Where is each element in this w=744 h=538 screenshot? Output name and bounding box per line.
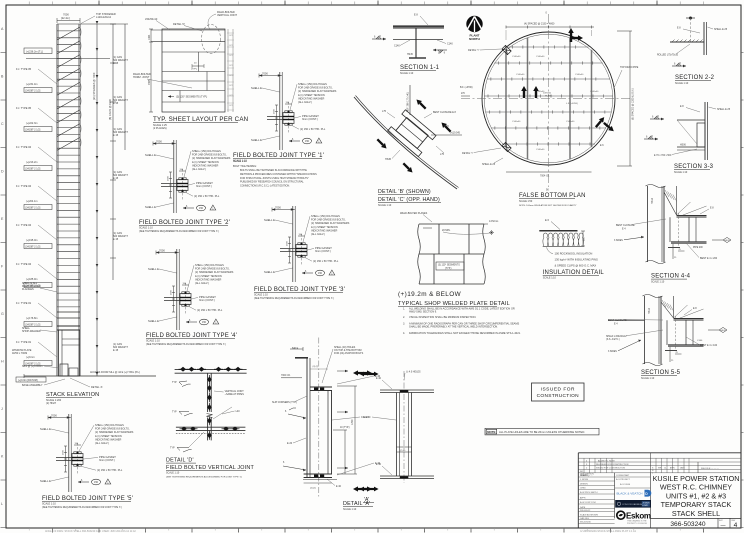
svg-text:DETAIL 'B' (SHOWN): DETAIL 'B' (SHOWN) [378,189,431,195]
svg-text:FIELD BOLTED JOINT TYPE '5': FIELD BOLTED JOINT TYPE '5' [42,496,133,502]
svg-text:STACK SHELL: STACK SHELL [672,509,720,518]
svg-text:(2) 150 x 50 THK. PLL: (2) 150 x 50 THK. PLL [197,308,223,312]
svg-text:3 SIDES: 3 SIDES [608,351,617,353]
svg-text:TYP. SHEET LAYOUT PER CAN: TYP. SHEET LAYOUT PER CAN [153,116,248,123]
svg-text:FOR STRUCTURAL JOINTS USING HI: FOR STRUCTURAL JOINTS USING HIGH STRENGT… [240,177,309,180]
svg-text:[34/26T-2 1/2]: [34/26T-2 1/2] [26,206,41,209]
svg-text:(2) HARDENED FLAT WASHERS: (2) HARDENED FLAT WASHERS [95,430,134,434]
svg-text:G: G [1,312,4,316]
svg-text:100 ROCKWOOL INSULATION: 100 ROCKWOOL INSULATION [555,252,593,256]
stack elevation column [57,24,81,376]
svg-text:FIELD BOLTED JOINT TYPE '3': FIELD BOLTED JOINT TYPE '3' [254,287,345,293]
svg-text:SCALE 1:10: SCALE 1:10 [675,82,689,85]
svg-text:(2) 40: (2) 40 [400,450,406,452]
svg-text:~SAME AT PIPES: ~SAME AT PIPES [225,393,245,396]
svg-text:E 20: E 20 [287,442,293,445]
svg-text:INSULATION DETAIL: INSULATION DETAIL [543,270,605,276]
svg-text:SHALL BE MADE, PREFERABLY AT T: SHALL BE MADE, PREFERABLY AT THE VERTICA… [409,325,498,329]
section 5-5 [606,295,727,381]
svg-text:C140x60: C140x60 [512,121,521,123]
svg-text:FOR 24Ø GRADE 8.8 BOLTS,: FOR 24Ø GRADE 8.8 BOLTS, [195,267,230,271]
svg-text:BENT E 4 x 100: BENT E 4 x 100 [700,344,718,347]
stack elevation can weight labels [113,56,128,352]
svg-text:DETAIL 'D': DETAIL 'D' [173,23,185,26]
svg-text:2.: 2. [403,316,405,319]
svg-text:366-503240: 366-503240 [670,521,706,528]
svg-text:HS45: HS45 [407,54,413,56]
svg-text:E 15: E 15 [113,349,119,352]
svg-text:INDICATING WASHER: INDICATING WASHER [311,228,337,232]
svg-text:C140x60: C140x60 [590,91,599,93]
svg-text:SCALE 1:10: SCALE 1:10 [543,277,557,280]
svg-text:(3) 120° SEGMENTS (TYP.): (3) 120° SEGMENTS (TYP.) [176,96,207,99]
svg-text:(ALL GALV.): (ALL GALV.) [192,167,206,171]
svg-text:FABRICATION TOLERANCES SHALL N: FABRICATION TOLERANCES SHALL NOT EXCEED … [409,331,521,335]
svg-text:SECTION 1-1: SECTION 1-1 [400,65,440,71]
svg-text:KUSILE POWER STATION: KUSILE POWER STATION [653,474,740,483]
svg-text:(S.S. A ETC.): (S.S. A ETC.) [606,338,620,341]
svg-text:(2) 150 x 50 THK. PLL: (2) 150 x 50 THK. PLL [313,259,339,263]
svg-text:NORTH: NORTH [469,37,480,41]
svg-text:C140x60: C140x60 [512,56,521,58]
svg-text:(2 PLACES): (2 PLACES) [153,127,167,130]
svg-text:7000: 7000 [262,72,268,76]
svg-text:—: — [721,523,726,529]
svg-text:(+)231.4m: (+)231.4m [26,83,37,86]
svg-text:WR: WR [658,468,662,470]
svg-text:(SEE TIGHTENING REQUIREMENTS A: (SEE TIGHTENING REQUIREMENTS AS DESCRIBE… [139,230,219,233]
svg-text:SCALE 1:10: SCALE 1:10 [400,72,414,75]
svg-text:INDICATING WASHER: INDICATING WASHER [195,277,221,281]
svg-text:(+)204.1m: (+)204.1m [26,200,37,203]
svg-text:SHELL (150) DIA HOLES: SHELL (150) DIA HOLES [311,214,340,218]
title text [653,474,740,518]
svg-text:E 15: E 15 [113,102,119,105]
svg-text:10 (TYP.): 10 (TYP.) [340,427,350,429]
svg-text:PUBLISHED BY RESEARCH COUNCIL: PUBLISHED BY RESEARCH COUNCIL ON STRUCTU… [240,181,304,184]
svg-text:(2) HARDENED FLAT WASHERS: (2) HARDENED FLAT WASHERS [192,156,231,160]
svg-text:1472: 1472 [229,95,233,97]
svg-text:& SPEED CLIPS @ 600 O.C. MAX: & SPEED CLIPS @ 600 O.C. MAX [555,263,597,267]
svg-text:SECTION 5-5: SECTION 5-5 [641,370,681,376]
svg-text:& (1) SHEET TENSION: & (1) SHEET TENSION [192,160,219,164]
svg-text:INDICATING WASHER: INDICATING WASHER [298,96,324,100]
svg-text:B+V 12066: B+V 12066 [620,484,631,486]
svg-text:B+V PROJECT: B+V PROJECT [616,479,631,481]
svg-text:1472: 1472 [229,85,233,87]
svg-text:HS06: HS06 [680,145,686,147]
svg-text:E 40: E 40 [336,485,342,488]
svg-text:J. MOSS: J. MOSS [580,479,589,481]
svg-text:150: 150 [305,140,310,143]
contractor navy bar [615,500,651,508]
svg-text:150: 150 [94,481,99,484]
svg-text:7000 I.D.: 7000 I.D. [281,374,291,377]
svg-text:(SEE TIGHTENING REQUIREMENTS A: (SEE TIGHTENING REQUIREMENTS AS DESCRIBE… [254,297,334,300]
svg-text:SHELL E 25: SHELL E 25 [714,28,728,31]
svg-text:3mm (CONT.): 3mm (CONT.) [196,184,212,188]
field bolted joint type 3 [254,206,350,301]
svg-text:FOR (24) ANCHOR BOLTS: FOR (24) ANCHOR BOLTS [334,352,364,355]
svg-text:F.J. TYPE #4: F.J. TYPE #4 [16,223,32,227]
svg-text:DATE: DATE [680,467,685,470]
svg-text:L120x120x12: L120x120x12 [96,16,112,19]
false bottom plan [460,12,639,208]
svg-text:TYP: TYP [172,411,177,414]
svg-text:(+)19.545: (+)19.545 [450,133,461,135]
insulation detail [539,218,604,280]
svg-text:E 70: E 70 [444,126,449,128]
svg-text:SHELL (150) DIA HOLES: SHELL (150) DIA HOLES [95,423,124,427]
svg-text:(8) CANS @ 9100: (8) CANS @ 9100 [108,99,112,120]
svg-text:H: H [1,360,4,364]
svg-text:HS05: HS05 [720,330,726,332]
svg-text:7000: 7000 [156,140,162,144]
svg-text:(2) HARDENED FLAT WASHERS: (2) HARDENED FLAT WASHERS [195,270,234,274]
svg-text:F.J. TYPE #4: F.J. TYPE #4 [16,145,32,149]
section 4-4 [614,185,731,284]
svg-text:B.F. (+6700): B.F. (+6700) [460,87,473,89]
svg-text:TYPICAL SHOP WELDED PLATE DETA: TYPICAL SHOP WELDED PLATE DETAIL [398,301,510,307]
svg-text:DETAIL 'D': DETAIL 'D' [166,458,194,464]
svg-text:DETAIL 'C' (OPP. HAND): DETAIL 'C' (OPP. HAND) [378,197,440,203]
consultant logo blue bar [617,490,652,497]
svg-text:[34/26T-2 1/2]: [34/26T-2 1/2] [26,245,41,248]
svg-text:CONSULTANT: CONSULTANT [616,474,630,477]
svg-text:HS13: HS13 [651,197,654,204]
field bolted joint type 4 [146,249,237,347]
svg-text:(+)176.8m: (+)176.8m [26,317,37,320]
svg-text:DATE: DATE [580,506,586,509]
detail A front view [272,338,381,512]
svg-text:[22.4m]: [22.4m] [61,16,70,20]
svg-text:1472: 1472 [229,55,233,57]
svg-text:C140x60: C140x60 [566,121,575,123]
svg-text:F.J. TYPE #5: F.J. TYPE #5 [16,106,32,110]
svg-text:C140: C140 [447,43,453,46]
svg-text:150: 150 [202,321,207,324]
svg-text:FOR 24Ø GRADE 8.8 BOLTS,: FOR 24Ø GRADE 8.8 BOLTS, [311,218,346,222]
svg-text:7000: 7000 [159,249,165,253]
svg-text:E 40: E 40 [376,463,382,466]
note bar [485,428,599,435]
svg-text:& (1) SHEET TENSION: & (1) SHEET TENSION [195,274,222,278]
svg-text:150: 150 [199,207,204,210]
svg-text:3mm (CONT.): 3mm (CONT.) [99,458,115,462]
svg-text:UNITS #1, #2 & #3: UNITS #1, #2 & #3 [666,491,726,500]
svg-text:& (1) SHEET TENSION: & (1) SHEET TENSION [298,93,325,97]
svg-text:(ALL GALV.): (ALL GALV.) [298,100,312,104]
svg-text:SCALE 1:10: SCALE 1:10 [378,204,392,207]
svg-text:BENT CLOSURE E 8: BENT CLOSURE E 8 [433,111,456,114]
svg-text:(4) SPACED @ 2130 = 4800: (4) SPACED @ 2130 = 4800 [524,23,555,26]
stack elevation title [46,392,99,405]
svg-text:7000: 7000 [275,206,281,210]
svg-text:CAD FILE: CAD FILE [580,517,590,520]
svg-text:SHELL (150) DIA HOLES: SHELL (150) DIA HOLES [192,149,221,153]
svg-text:E 8: E 8 [414,14,418,17]
section 2-2 [657,17,728,86]
svg-text:FIELD BOLTED VERTICAL JOINT: FIELD BOLTED VERTICAL JOINT [166,465,254,471]
svg-text:[34/26T-2 1/2]: [34/26T-2 1/2] [26,89,41,92]
svg-text:BOLTS SHALL BE TIGHTENED IN AC: BOLTS SHALL BE TIGHTENED IN ACCORDANCE W… [240,169,307,172]
section 3-3 [644,102,731,174]
svg-text:366-503240: 366-503240 [580,522,592,524]
svg-text:F.J. TYPE #1: F.J. TYPE #1 [16,301,32,305]
stack base labels [12,282,103,389]
svg-text:APPR: APPR [580,497,586,500]
typical shop welded plate detail [398,212,521,335]
svg-text:[34/26T-2 1/2]: [34/26T-2 1/2] [26,167,41,170]
svg-text:C140: C140 [394,45,400,48]
svg-text:(2) (2): (2) (2) [310,488,316,490]
svg-text:TEMPORARY STACK: TEMPORARY STACK [661,500,732,509]
svg-text:DESIGN: DESIGN [580,484,588,486]
svg-text:BOLT TIGHTENING:: BOLT TIGHTENING: [233,164,257,168]
svg-text:(5) SPACED @ 1200 (U.O.N.): (5) SPACED @ 1200 (U.O.N.) [632,88,635,120]
svg-text:C140x60: C140x60 [536,149,545,151]
svg-text:L.F. (+6700): L.F. (+6700) [566,103,578,105]
svg-text:STACK ELEVATION: STACK ELEVATION [46,392,99,398]
svg-text:L: L [1,502,3,506]
svg-text:J: J [1,407,3,411]
svg-text:1.: 1. [403,308,405,311]
svg-text:3mm (CONT.): 3mm (CONT.) [315,249,331,253]
svg-text:RE-ISSUED FOR CONSTRUCTION: RE-ISSUED FOR CONSTRUCTION [596,464,629,466]
svg-text:NOTE: 100mm INSULATION NOT SHO: NOTE: 100mm INSULATION NOT SHOWN FOR CLA… [519,204,577,207]
svg-text:4.: 4. [403,332,405,335]
svg-text:(ALL GALV.): (ALL GALV.) [311,232,325,236]
svg-text:D: D [1,170,4,174]
stack elevation F.J. labels [16,48,110,366]
svg-text:CONNECTIONS (R.C.S.C.) LATEST: CONNECTIONS (R.C.S.C.) LATEST EDITION. [240,185,290,188]
svg-text:SHELL E: SHELL E [148,267,159,271]
svg-text:(+)213.2m: (+)213.2m [26,161,37,164]
svg-text:& RAY: & RAY [642,504,648,507]
svg-text:(+)195.0m: (+)195.0m [26,239,37,242]
svg-text:SHELL E: SHELL E [145,153,156,157]
svg-text:WEST R.C. CHIMNEY: WEST R.C. CHIMNEY [660,483,732,492]
svg-text:1700: 1700 [351,419,354,425]
svg-text:L40: L40 [236,410,241,413]
svg-text:E 15: E 15 [113,134,119,137]
svg-text:1472: 1472 [229,35,233,37]
stack elevation dimension lines [57,13,128,377]
svg-text:(-) 4.0 HOLES: (-) 4.0 HOLES [406,372,421,374]
svg-text:E 70 x 700 x 500: E 70 x 700 x 500 [654,155,672,157]
svg-text:SCALE 1:10: SCALE 1:10 [343,508,357,511]
svg-text:SHELL E: SHELL E [148,319,159,323]
svg-text:HS13: HS13 [648,307,651,314]
svg-text:NOTE: NOTE [487,430,495,434]
stack base assembly [24,312,156,378]
svg-text:(2) HARDENED FLAT WASHERS: (2) HARDENED FLAT WASHERS [311,221,350,225]
svg-text:(ALL GALV.): (ALL GALV.) [195,281,209,285]
svg-text:FOR 24Ø GRADE 8.8 BOLTS,: FOR 24Ø GRADE 8.8 BOLTS, [95,427,130,431]
svg-text:(+)19.2m & BELOW: (+)19.2m & BELOW [398,291,462,298]
svg-text:PLATE: PLATE [545,95,552,98]
svg-text:SHOP-WELDED: SHOP-WELDED [22,330,41,333]
svg-text:FOR 24Ø GRADE 8.8 BOLTS,: FOR 24Ø GRADE 8.8 BOLTS, [298,86,333,90]
svg-text:F.J. TYPE #4: F.J. TYPE #4 [16,262,32,266]
svg-text:VISUAL INSPECTION SHALL BE MIN: VISUAL INSPECTION SHALL BE MINIMUM INSPE… [409,315,476,319]
svg-text:BENT E 4 x 200: BENT E 4 x 200 [700,257,718,260]
svg-text:SHELL E 25: SHELL E 25 [482,163,496,166]
svg-text:L50x50x10: L50x50x10 [145,18,158,21]
svg-text:'A': 'A' [364,497,369,503]
svg-text:FOR 24Ø GRADE 8.8 BOLTS,: FOR 24Ø GRADE 8.8 BOLTS, [192,153,227,157]
svg-text:BASE ASSEMBLY: BASE ASSEMBLY [22,384,43,387]
svg-text:L75: L75 [440,153,445,156]
svg-text:(SEE TIGHTENING REQUIREMENTS A: (SEE TIGHTENING REQUIREMENTS AS DESCRIBE… [166,476,242,479]
svg-text:(+)185.9m: (+)185.9m [26,278,37,281]
svg-text:1500: 1500 [63,449,65,455]
svg-text:4: 4 [734,522,738,529]
svg-text:(2) (2): (2) (2) [313,366,319,368]
svg-text:40/50 x 700M: 40/50 x 700M [12,352,27,355]
svg-text:(TYP.): (TYP.) [191,69,197,71]
eskom logo [617,511,651,525]
svg-text:TOP DRAIN PIPE: TOP DRAIN PIPE [620,66,639,69]
svg-text:TYP: TYP [172,381,177,384]
svg-text:DETAIL 'A': DETAIL 'A' [91,386,103,389]
svg-text:1472: 1472 [229,65,233,67]
svg-text:(2) HARDENED FLAT WASHERS: (2) HARDENED FLAT WASHERS [298,89,337,93]
svg-text:130 kg/m³ WITH INSULATING PINS: 130 kg/m³ WITH INSULATING PINS [555,257,598,261]
svg-text:PIPE 200: PIPE 200 [693,247,703,249]
svg-text:SHELF L150x90x12: SHELF L150x90x12 [606,336,627,338]
svg-text:366-XX-E — — —: 366-XX-E — — — [701,468,720,470]
svg-text:ALL PLATE HOLES ARE TO BE 26mm: ALL PLATE HOLES ARE TO BE 26mm UNLESS OT… [499,430,585,434]
detail D field bolted vertical joint [166,367,254,479]
svg-text:WELD-BOLTED PLANES: WELD-BOLTED PLANES [400,212,428,215]
svg-text:FIELD BOLTED JOINT TYPE '2': FIELD BOLTED JOINT TYPE '2' [139,220,230,226]
svg-text:[34/26T-2 1/2]: [34/26T-2 1/2] [26,128,41,131]
section 1-1 [372,14,453,76]
svg-text:E 6: E 6 [545,218,549,222]
svg-text:INDICATING WASHER: INDICATING WASHER [192,163,218,167]
svg-text:SHELL E 25: SHELL E 25 [717,108,731,111]
svg-text:SLIP CORNERS (TYP.): SLIP CORNERS (TYP.) [272,401,297,404]
svg-text:METHODS & PROCEDURES CONTAINED: METHODS & PROCEDURES CONTAINED WITHIN "S… [240,173,317,176]
svg-text:PROPERTY OF ESKOM: PROPERTY OF ESKOM [627,523,647,525]
svg-text:3mm (CONT.): 3mm (CONT.) [199,298,215,302]
svg-text:VERTICAL JOINT: VERTICAL JOINT [217,14,237,17]
svg-text:C140x60: C140x60 [536,56,545,58]
svg-text:ISSUED FOR CONSTRUCTION: ISSUED FOR CONSTRUCTION [596,468,625,470]
svg-text:HORIZ. JOINT: HORIZ. JOINT [133,76,150,79]
svg-text:(+)9.1m: (+)9.1m [26,356,35,359]
svg-text:1500: 1500 [171,289,173,295]
svg-text:7004 I.D.: 7004 I.D. [540,175,550,178]
svg-text:SHELL E: SHELL E [40,427,51,431]
svg-text:SCALE 1:10: SCALE 1:10 [641,377,655,380]
svg-text:INDICATING WASHER: INDICATING WASHER [95,437,121,441]
svg-text:+B+E/C.Q+ ...: +B+E/C.Q+ ... [580,475,593,477]
svg-text:SHELL E: SHELL E [264,218,275,222]
svg-text:FIELD BOLTED JOINT TYPE '4': FIELD BOLTED JOINT TYPE '4' [146,333,237,339]
svg-text:DETAIL 'Y': DETAIL 'Y' [468,49,480,52]
svg-text:SHELL (150) DIA HOLES: SHELL (150) DIA HOLES [298,82,327,86]
svg-text:HS45: HS45 [385,158,392,161]
svg-text:CONSTRUCTION: CONSTRUCTION [537,393,579,399]
svg-text:SECTION 2-2: SECTION 2-2 [675,75,715,81]
field bolted joint type 2 [139,140,231,234]
svg-text:150: 150 [318,272,323,275]
svg-text:SCALE 1:10: SCALE 1:10 [42,503,56,506]
svg-text:(SEE TIGHTENING REQUIREMENTS A: (SEE TIGHTENING REQUIREMENTS AS DESCRIBE… [42,506,122,509]
svg-text:SCALE 1:10: SCALE 1:10 [651,281,665,284]
svg-text:(3) 120° SEGMENTS: (3) 120° SEGMENTS [438,265,460,267]
svg-text:SCALE AS SHOWN: SCALE AS SHOWN [580,513,598,516]
svg-text:3 SIDES: 3 SIDES [614,240,623,242]
title block [578,453,741,528]
svg-text:1472: 1472 [229,45,233,47]
svg-text:FIELD BOLTED JOINT TYPE '1': FIELD BOLTED JOINT TYPE '1' [233,153,324,159]
svg-text:SCALE 1:10: SCALE 1:10 [146,340,160,343]
svg-text:(2) 150 x 50 THK. PLL: (2) 150 x 50 THK. PLL [300,127,326,131]
svg-text:1472: 1472 [229,105,233,107]
svg-text:& (1) SHEET TENSION: & (1) SHEET TENSION [95,434,122,438]
svg-text:APPD: APPD [670,467,676,470]
svg-text:E 15: E 15 [113,238,119,241]
svg-text:C140x60: C140x60 [575,74,584,76]
svg-text:REF. 366-177 (+41): REF. 366-177 (+41) [408,92,410,112]
svg-text:ROLLED L75x75x10: ROLLED L75x75x10 [657,55,679,57]
svg-text:2014-03-12: 2014-03-12 [580,510,591,512]
svg-text:(ALL GALV.): (ALL GALV.) [95,441,109,445]
svg-text:(+)0.0m [DATUM]: (+)0.0m [DATUM] [18,379,38,382]
svg-text:(21) STRAKES @ 7000: (21) STRAKES @ 7000 [92,72,96,100]
svg-text:SILL @ (+)0.000m: SILL @ (+)0.000m [22,365,42,368]
svg-text:BLACK & VEATCH: BLACK & VEATCH [617,492,643,496]
svg-text:SECTION 4-4: SECTION 4-4 [651,274,691,280]
svg-text:3mm (CONT.): 3mm (CONT.) [302,117,318,121]
svg-text:SHELL E: SHELL E [145,205,156,209]
svg-text:SCALE 1:10: SCALE 1:10 [254,294,268,297]
svg-text:840 E: 840 E [292,347,299,350]
svg-text:ISSUED FOR: ISSUED FOR [541,386,575,392]
detail A side view [359,371,434,503]
svg-text:C140x60: C140x60 [516,74,525,76]
field bolted joint type 5 [40,414,134,510]
svg-text:1004: 1004 [148,34,151,40]
svg-text:1472: 1472 [229,75,233,77]
svg-text:1472mm: 1472mm [489,220,498,223]
svg-text:E 15: E 15 [113,177,119,180]
svg-text:CONCOR KARRENA: CONCOR KARRENA [622,503,643,506]
svg-text:3.: 3. [403,322,405,325]
svg-text:20 MIN.: 20 MIN. [442,229,451,232]
svg-text:(2) HIGH: (2) HIGH [46,402,56,405]
svg-text:AWS/ SM1/ SECTION 9.: AWS/ SM1/ SECTION 9. [409,310,437,314]
svg-text:Eskom: Eskom [626,512,651,521]
svg-text:SCALE 1:10: SCALE 1:10 [674,171,688,174]
svg-text:7000: 7000 [51,414,57,418]
svg-text:SCALE 1:50: SCALE 1:50 [519,200,533,203]
svg-text:[34/26T-2 1/2]: [34/26T-2 1/2] [26,323,41,326]
plant north symbol [466,16,482,41]
svg-text:SHELL E: SHELL E [40,479,51,483]
svg-text:B+W PROJ 066714: B+W PROJ 066714 [580,492,598,494]
svg-text:E 15: E 15 [113,62,119,65]
svg-text:SHELL E: SHELL E [251,86,262,90]
svg-text:FLANGES: FLANGES [22,288,34,291]
svg-text:F.J. TYPE #4: F.J. TYPE #4 [16,184,32,188]
svg-text:ADDED PL. NOTE: ADDED PL. NOTE [598,459,615,462]
svg-text:C: C [1,122,4,126]
svg-text:FALSE BOTTOM PLAN: FALSE BOTTOM PLAN [519,193,586,199]
